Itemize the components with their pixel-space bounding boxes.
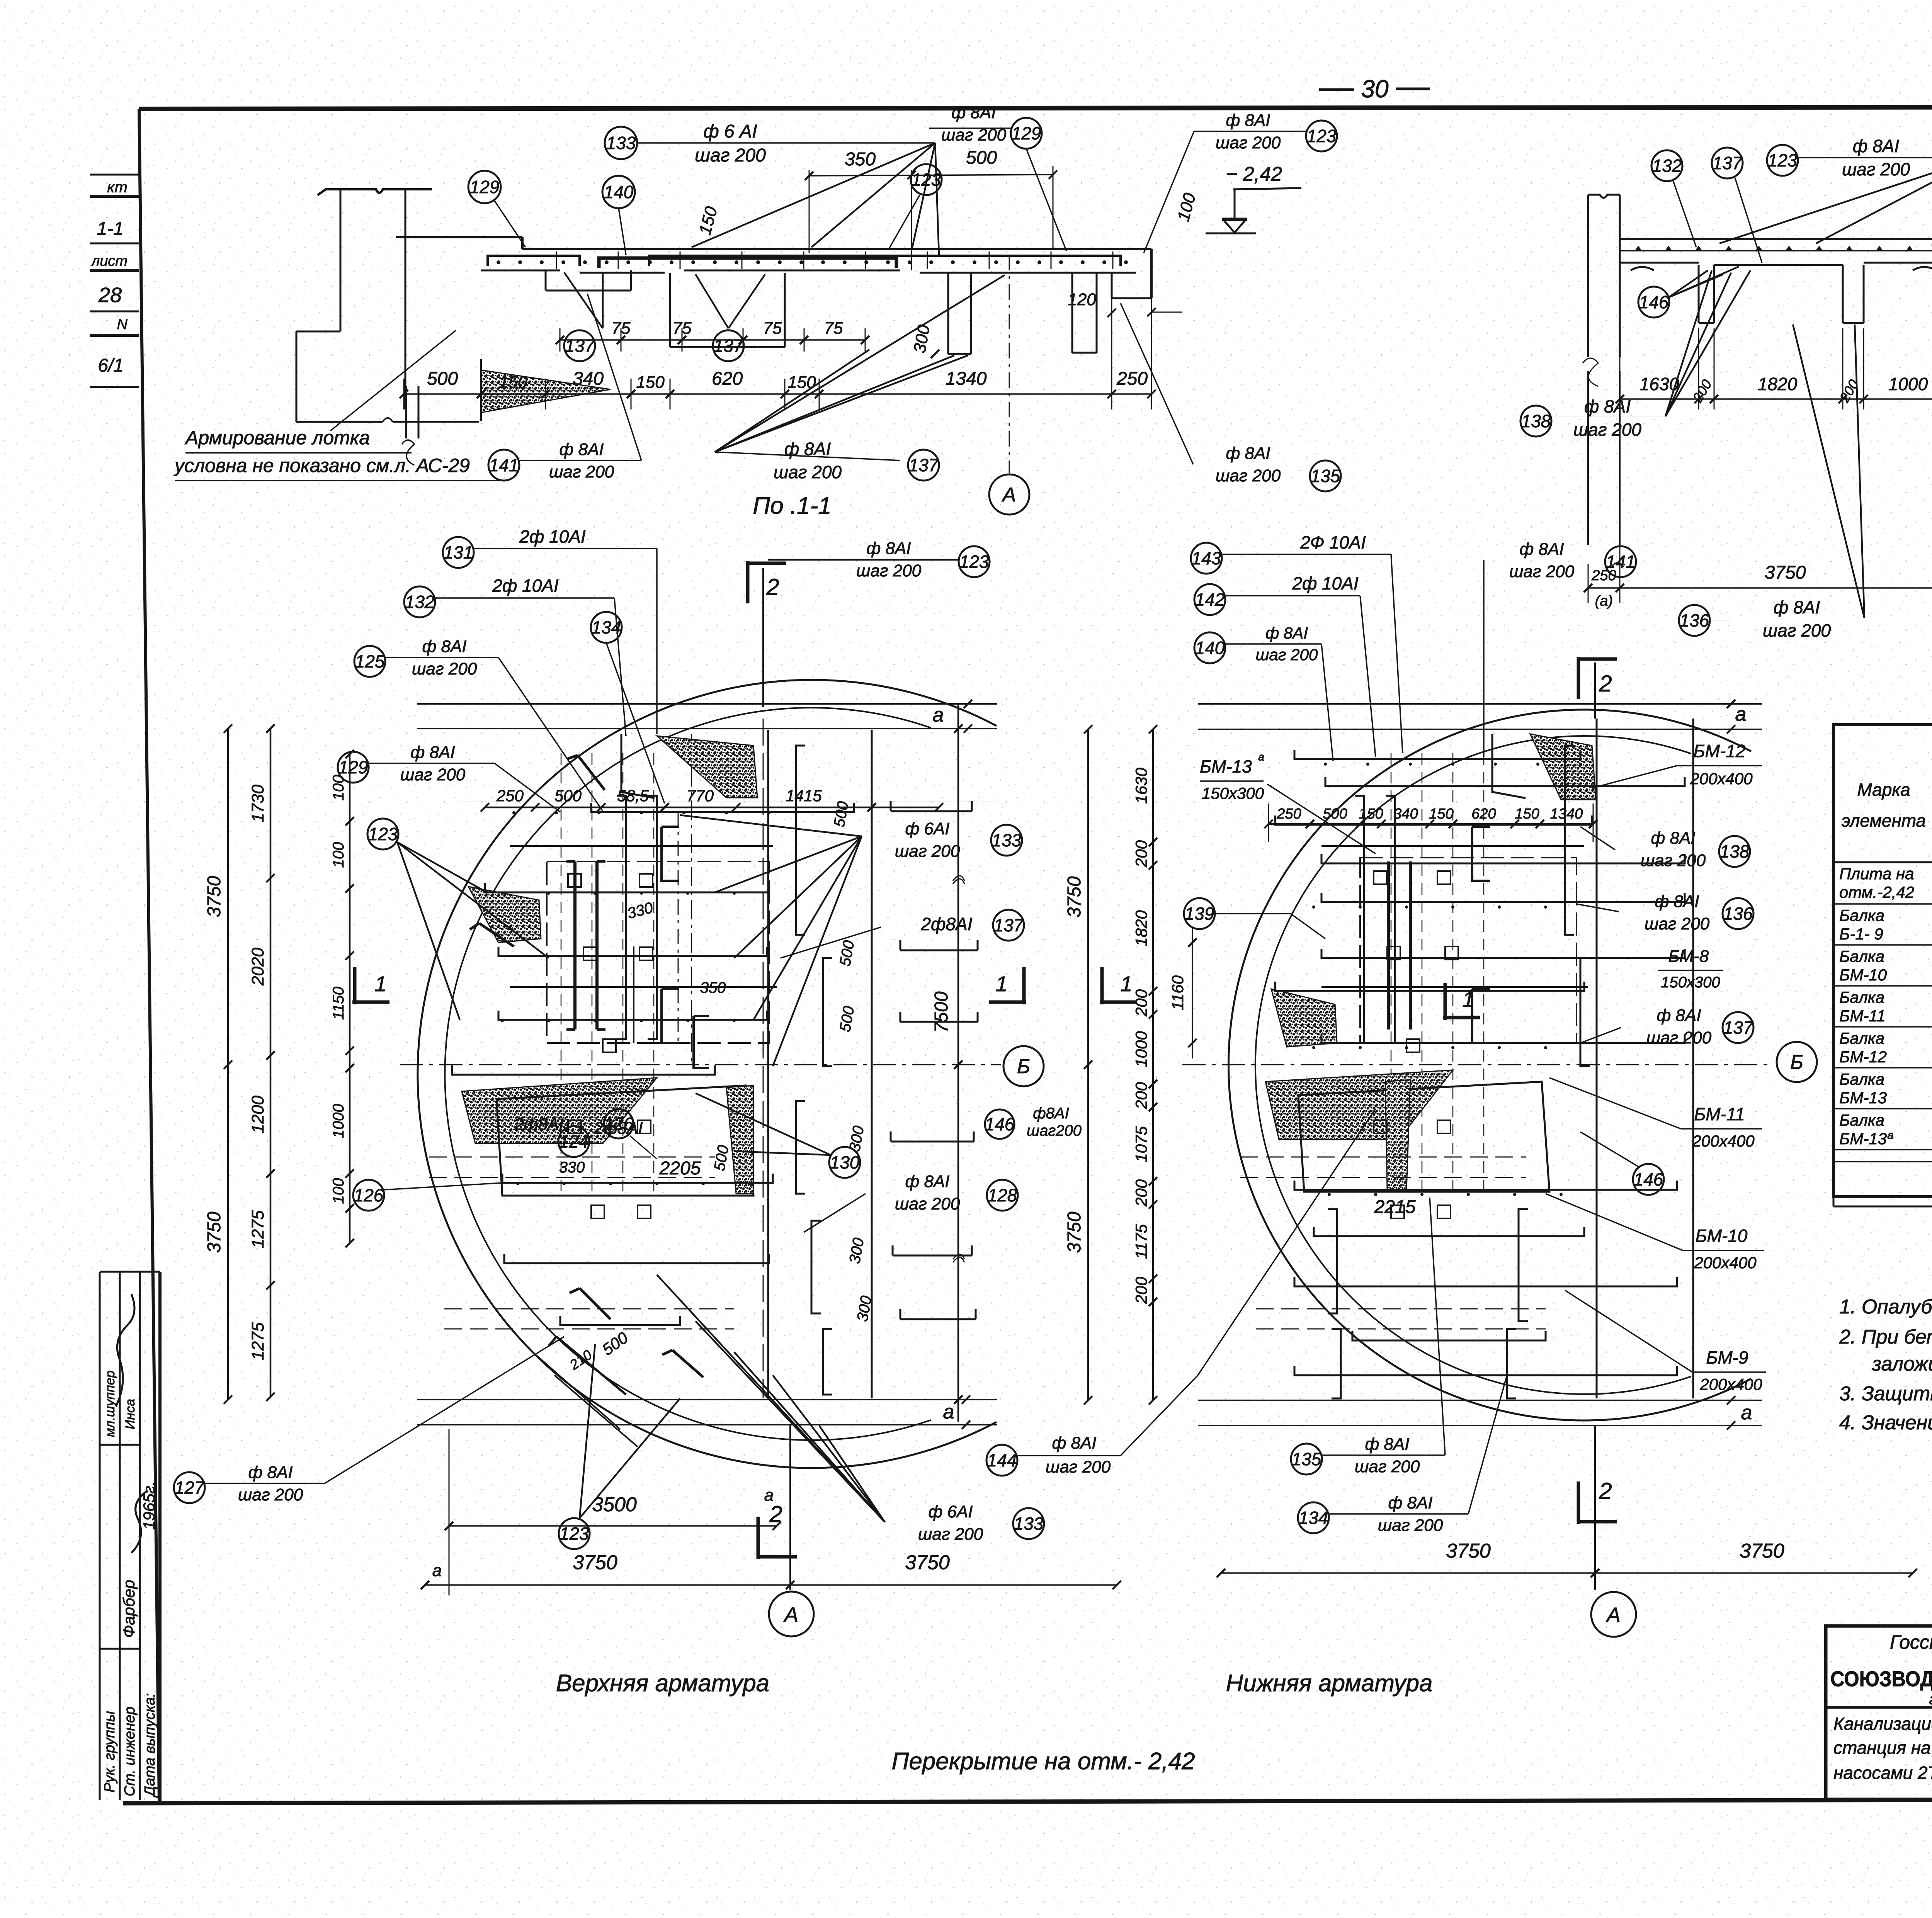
right plan section cut 2 top [1578,657,1617,699]
svg-text:БМ-13: БМ-13 [1200,756,1252,776]
svg-text:200х400: 200х400 [1694,1254,1757,1272]
svg-text:насосами 2Т/2 НФ или 4НФ: насосами 2Т/2 НФ или 4НФ [1833,1763,1932,1783]
svg-text:ф 8АI: ф 8АI [1651,829,1695,848]
callout 134 left plan [591,612,622,643]
right plan lower trapezoid dark edge [1385,1080,1410,1190]
svg-text:200: 200 [1132,1276,1150,1304]
svg-text:ф 8АI: ф 8АI [410,743,455,762]
svg-text:500: 500 [427,369,458,389]
svg-text:А: А [783,1603,798,1626]
svg-text:(а): (а) [1595,593,1613,609]
callout 125 with label [354,646,385,677]
svg-text:123: 123 [368,824,398,844]
svg-text:1415: 1415 [786,787,822,805]
callout 130 with fan [829,1147,860,1178]
section 1-1 left wall faces [340,189,342,331]
svg-text:2ф 10АI: 2ф 10АI [519,527,586,547]
svg-text:620: 620 [712,369,743,389]
svg-text:БМ-12: БМ-12 [1839,1048,1887,1066]
svg-text:условна не показано см.л. АС-2: условна не показано см.л. АС-29 [173,455,470,476]
svg-text:Балка: Балка [1839,906,1884,924]
svg-text:144: 144 [987,1450,1017,1470]
right plan thick vertical bars 2f10AI [1387,861,1390,1030]
left plan upper big rect opening [547,861,769,1043]
left plan chord wall line 1 [767,730,769,1398]
svg-text:шаг 200: шаг 200 [1509,562,1575,581]
callout 126 mid [604,1109,633,1138]
svg-text:132: 132 [1652,156,1682,176]
callout 141 right plan with label [1605,546,1636,577]
callout 134 bottom right plan with label [1298,1502,1329,1533]
svg-text:2: 2 [1599,671,1612,697]
left plan vertical dim chain outer 3750 3750 [227,729,229,1400]
svg-text:БМ-10: БМ-10 [1839,966,1887,984]
svg-text:БМ-9: БМ-9 [1706,1347,1748,1368]
svg-text:2: 2 [766,574,779,600]
right plan lower dashed horizontals [1240,1157,1526,1158]
svg-text:1730: 1730 [248,785,267,822]
svg-text:1160: 1160 [1168,975,1187,1010]
title block outer rect [1826,1626,1932,1799]
svg-text:2ф8АI: 2ф8АI [514,1115,563,1134]
svg-text:133: 133 [1014,1514,1044,1534]
callout 140 right plan with label [1194,632,1225,663]
top-left stamp boxes [90,174,139,176]
svg-text:138: 138 [1521,411,1551,431]
svg-text:мл.шуппер: мл.шуппер [103,1371,117,1437]
svg-text:150: 150 [1515,806,1539,822]
axis B circle right plan [1777,1042,1817,1082]
left plan mid dark band wedge [462,1078,657,1143]
svg-text:2. При бетонировании пере: 2. При бетонировании перекрытия на отм.-… [1839,1326,1932,1348]
svg-text:100: 100 [330,1178,347,1204]
callout 123 far right with label [1306,121,1337,151]
svg-text:1000: 1000 [330,1104,347,1138]
section 1-1 deep beam B [669,273,671,347]
svg-text:ф 8АI: ф 8АI [1656,1006,1701,1025]
left plan L-bracket top rebar marks [567,755,605,790]
sheet border frame bottom [123,1799,1932,1803]
left plan rebar cluster dashed verticals [561,753,562,1194]
svg-text:шаг 200: шаг 200 [1378,1516,1443,1535]
fan from 133 bottom [657,1275,885,1522]
svg-text:1275: 1275 [248,1322,267,1360]
right plan C hook bars column [1472,827,1490,881]
svg-text:ф 8АI: ф 8АI [1052,1434,1096,1453]
svg-text:350: 350 [845,149,876,170]
svg-text:123: 123 [912,170,941,190]
callout 132 with label 2f10AI [404,586,435,617]
left plan section cut 2 bottom [758,1517,797,1559]
callout 143 with label 2f10AI [1191,543,1222,574]
section 1-1 lotok lower walls [405,386,407,438]
svg-text:126: 126 [354,1185,384,1205]
svg-text:шаг 200: шаг 200 [1763,620,1831,640]
svg-text:126: 126 [604,1114,634,1134]
callout 123 bottom [559,1518,590,1549]
svg-text:1340: 1340 [1550,806,1583,822]
section 1-1 slab top chord [522,248,1151,250]
svg-text:станция на 2 агрегата с: станция на 2 агрегата с [1833,1738,1932,1758]
signature squiggle [116,1294,134,1406]
svg-text:3750: 3750 [204,1211,224,1253]
section 1-1 deep beam C [947,273,949,354]
svg-text:2Ф 10АI: 2Ф 10АI [1300,532,1366,552]
svg-text:шаг 200: шаг 200 [1355,1457,1420,1476]
left plan right dim 7500 [957,704,959,1422]
left plan right side angle rebar hooks [891,801,972,811]
callout 123 left pair [367,819,398,849]
callout 139 with leader [1184,898,1215,929]
title block left col divider [1826,1706,1932,1709]
svg-text:ф 8АI: ф 8АI [905,1172,949,1191]
svg-text:Фарбер: Фарбер [120,1580,138,1638]
svg-text:ф 8АI: ф 8АI [951,103,996,122]
callout 146 right with label [985,1109,1014,1139]
svg-text:ф 8АI: ф 8АI [1584,396,1631,416]
svg-text:2020: 2020 [248,948,267,986]
svg-text:28: 28 [98,284,122,307]
svg-text:1000: 1000 [1888,374,1928,394]
svg-text:137: 137 [714,336,744,356]
svg-text:250: 250 [1276,806,1301,822]
svg-text:340: 340 [573,369,604,389]
svg-text:1965г.: 1965г. [140,1481,158,1530]
right plan top cut band [1198,703,1762,705]
left plan section cut 1 marks [352,967,389,1004]
svg-text:− 2,42: − 2,42 [1226,163,1282,185]
svg-text:ф 8АI: ф 8АI [248,1463,293,1482]
svg-text:ф 8АI: ф 8АI [1226,444,1270,463]
svg-text:шаг 200: шаг 200 [1641,851,1706,870]
section 1-1 bottom dim chain 500 150 340 150 620 150 1340 250 [403,379,405,409]
svg-text:ф 8АI: ф 8АI [1388,1493,1432,1512]
svg-text:134: 134 [1299,1508,1328,1528]
svg-text:ф 8АI: ф 8АI [559,440,604,459]
svg-text:6/1: 6/1 [98,355,124,376]
right plan section cut 1 marks [1100,967,1137,1004]
svg-text:150х300: 150х300 [1661,974,1720,991]
svg-text:шаг 200: шаг 200 [918,1525,983,1544]
section 1-1 left wall top [318,189,432,195]
section 1-1 lotok hatched wedge [481,370,611,413]
svg-text:200: 200 [1132,989,1150,1017]
right plan vertical rebar bars [1355,796,1364,1043]
svg-text:шаг 200: шаг 200 [238,1485,303,1504]
svg-text:132: 132 [405,592,435,612]
svg-text:500: 500 [1323,806,1347,822]
svg-text:А: А [1605,1604,1621,1627]
callout 129 with label left plan [338,752,369,783]
svg-text:138: 138 [1720,841,1750,861]
svg-text:200: 200 [1132,840,1150,868]
signature strip bottom-left [99,1272,101,1800]
right plan top corbel outline [1492,734,1526,798]
svg-text:137: 137 [565,336,595,356]
svg-text:340: 340 [1393,806,1418,822]
svg-text:123: 123 [1307,126,1337,146]
section 1-1 dims 75 75 137 [560,328,561,352]
svg-text:Б: Б [1017,1055,1030,1078]
svg-text:шаг 200: шаг 200 [412,659,477,678]
callout 123 on dim [911,164,942,195]
section 1-1 slab stirrup ticks [556,251,557,269]
right plan top dim 250 500 150 340 150 620 150 1340 [1269,823,1593,825]
left plan top corbel outline [621,734,655,798]
svg-text:1: 1 [374,972,386,996]
svg-text:лист: лист [91,253,128,269]
left plan lower dashed horizontals [429,1157,715,1158]
left plan lower trapezoid machine opening [497,1086,753,1196]
svg-text:136: 136 [1723,904,1753,924]
svg-text:ф 8АI: ф 8АI [1655,892,1699,911]
svg-text:1820: 1820 [1132,910,1150,946]
callout 132 section 2-2 [1651,150,1682,181]
svg-text:134: 134 [592,617,621,637]
svg-text:3750: 3750 [905,1551,950,1574]
svg-text:3750: 3750 [1740,1540,1784,1562]
svg-text:заложить закладные по лист: заложить закладные по листу АС-14. [1872,1353,1932,1375]
section 2-2 slab soffit [1620,262,1699,264]
svg-text:кт: кт [107,179,128,196]
svg-text:По .1-1: По .1-1 [753,493,831,519]
leader fan section 2-2 top [1719,158,1932,243]
table extra bottom line [1833,1206,1932,1208]
svg-text:250: 250 [1116,369,1148,389]
section 2-2 dim chain 1630 200 1820 200 1000 200 1075 200 1175 [1619,357,1621,409]
left plan C hook bars column [662,827,679,881]
svg-text:770: 770 [687,787,714,805]
svg-text:133: 133 [606,133,636,153]
svg-text:100: 100 [330,842,347,868]
svg-text:250: 250 [496,787,524,805]
svg-text:г. Москва: г. Москва [1929,1691,1932,1708]
svg-text:140: 140 [604,182,634,202]
left plan horizontal rebar bars [591,803,854,812]
svg-text:Дата выпуска:: Дата выпуска: [142,1693,158,1798]
svg-text:150: 150 [787,373,816,392]
axis B circle left plan [1003,1046,1044,1086]
svg-text:140: 140 [1195,638,1225,658]
svg-text:142: 142 [1195,590,1225,610]
svg-text:136: 136 [1680,610,1709,630]
svg-text:Госстрой СССР: Госстрой СССР [1890,1631,1932,1653]
left plan vertical dim chain inner 100s [349,754,351,1243]
svg-text:ф 8АI: ф 8АI [1265,624,1308,642]
leader from lotok note [330,330,456,431]
svg-text:3500: 3500 [592,1493,637,1516]
svg-text:2ф 10АI: 2ф 10АI [492,576,559,596]
page number 30 at top [1319,88,1354,91]
section 2-2 bottom rebar hooks [1631,267,1654,270]
svg-text:2ф 10АI: 2ф 10АI [1292,573,1359,593]
svg-text:а: а [933,704,944,726]
callout 140 [602,176,635,208]
section 2-2 slab rebar triangles [1634,246,1642,251]
svg-text:143: 143 [1192,548,1221,568]
left plan bottom cut band [417,1399,997,1400]
svg-text:Инса: Инса [123,1399,138,1429]
svg-text:137: 137 [909,455,939,475]
svg-text:75: 75 [763,319,782,338]
svg-text:шаг 200: шаг 200 [1046,1458,1111,1476]
svg-text:Балка: Балка [1839,1111,1884,1129]
section 2-2 left wall [1587,195,1589,357]
svg-text:3750: 3750 [1064,1211,1085,1253]
svg-text:150: 150 [636,373,665,392]
svg-text:ф 8АI: ф 8АI [1226,111,1270,130]
right plan outer wall arc [1229,710,1752,1420]
svg-text:Балка: Балка [1839,947,1884,965]
section 1-1 slab right end [1150,249,1153,298]
svg-text:131: 131 [444,542,473,562]
svg-text:1: 1 [1120,972,1132,996]
right plan chord wall line 1 [1596,719,1598,1398]
callout 142 with label 2f10AI [1194,584,1225,615]
svg-text:Нижняя арматура: Нижняя арматура [1226,1670,1433,1697]
left plan bottom dim 3500 [449,1525,777,1527]
svg-text:75: 75 [824,319,843,338]
left plan vertical rebar bars [617,796,626,1039]
svg-text:123: 123 [959,552,989,572]
svg-text:Б-1- 9: Б-1- 9 [1839,925,1883,943]
svg-text:1. Опалубочные чертежи см: 1. Опалубочные чертежи см. листы АС-10, … [1839,1296,1932,1318]
right plan mid dark band wedge [1265,1070,1453,1140]
svg-text:124: 124 [559,1131,589,1152]
table header bottom line [1833,861,1932,863]
svg-text:шаг 200: шаг 200 [1216,466,1281,485]
left plan chord wall line 2 [871,730,873,1398]
svg-text:200: 200 [1132,1179,1150,1207]
svg-text:130: 130 [830,1152,860,1172]
left plan top small dim 250 500 585 770 1415 [460,801,997,802]
svg-text:137: 137 [994,915,1024,935]
svg-text:ф 8АI: ф 8АI [866,539,911,558]
svg-text:200х400: 200х400 [1699,1375,1762,1393]
right plan extra horizontal bars [1321,845,1584,847]
svg-text:а: а [1741,1402,1752,1424]
svg-text:127: 127 [175,1478,205,1498]
svg-text:75: 75 [612,319,631,338]
svg-text:1000: 1000 [1132,1031,1150,1067]
callout 133 with label ф6АI шаг200 [605,127,637,159]
callout 129 left [468,171,501,203]
svg-text:1075: 1075 [1132,1126,1150,1162]
svg-text:129: 129 [470,177,500,197]
svg-text:2215: 2215 [1374,1197,1416,1217]
right plan rebar cluster dashed verticals [1391,753,1392,1190]
svg-text:3750: 3750 [204,876,224,917]
left plan top cut band [417,703,997,705]
svg-text:Балка: Балка [1839,1029,1884,1047]
svg-text:500: 500 [966,148,997,168]
svg-text:Плита на: Плита на [1839,865,1914,883]
svg-text:БМ-11: БМ-11 [1694,1104,1745,1124]
svg-text:128: 128 [988,1185,1017,1205]
left plan bar dots [512,811,515,814]
callout 135 bottom right plan with label [1291,1444,1322,1475]
svg-text:шаг200: шаг200 [1027,1122,1082,1139]
svg-text:150х300: 150х300 [1202,784,1264,802]
svg-text:75: 75 [673,319,692,338]
svg-text:ф8АI: ф8АI [1033,1105,1069,1122]
svg-text:137: 137 [1713,153,1743,173]
right plan top corbel dark wedge [1530,734,1596,800]
svg-text:БМ-8: БМ-8 [1668,947,1709,966]
left plan section cut line 2 vertical [763,719,764,1398]
svg-text:200х400: 200х400 [1690,770,1753,788]
svg-text:3750: 3750 [573,1551,617,1574]
right plan section cut 2 bottom [1578,1481,1617,1524]
sheet border frame left [139,109,159,1801]
svg-text:1630: 1630 [1132,768,1150,804]
section 1-1 slab rebar dots [497,260,500,264]
svg-text:2ф8АI: 2ф8АI [920,914,972,934]
svg-text:ф 8АI: ф 8АI [1853,136,1899,156]
left plan bottom angled rebar [549,1337,626,1395]
svg-text:123: 123 [560,1524,589,1544]
svg-text:129: 129 [338,757,368,777]
callout 144 bottom with label [986,1445,1017,1476]
svg-text:N: N [117,316,128,333]
section 1-1 beam D [1071,273,1073,353]
svg-text:элемента: элемента [1842,810,1926,831]
callout 141 with label [488,450,519,481]
callout 136 with label section 2-2 [1679,605,1710,636]
svg-text:2205: 2205 [659,1158,701,1179]
callout 126 left [353,1180,384,1211]
section 1-1 rib beam A [545,270,547,291]
svg-text:30: 30 [1361,75,1389,103]
right plan left dim chain 1630 1820 1000 1075 1175 [1152,729,1154,1400]
left plan small squares column stubs [568,874,581,887]
right plan bar dots [1324,763,1327,766]
left plan small inner verticals [633,946,634,1043]
section 1-1 wall ledge [396,236,522,238]
svg-text:Марка: Марка [1857,780,1910,800]
svg-text:Ст. инженер: Ст. инженер [122,1707,138,1796]
svg-text:146: 146 [1634,1169,1663,1189]
svg-text:100: 100 [330,775,347,801]
svg-text:200х400: 200х400 [1692,1132,1755,1150]
left plan lower trapezoid dark edge [726,1086,753,1194]
svg-text:330: 330 [559,1159,585,1176]
svg-text:3750: 3750 [1765,562,1806,583]
svg-text:шаг 200: шаг 200 [1645,914,1710,933]
leaders from 137 dims to beams [564,272,603,328]
svg-text:отм.-2,42: отм.-2,42 [1839,883,1914,901]
svg-text:150: 150 [499,373,527,392]
svg-text:123: 123 [1768,150,1798,170]
callout 138 with label section 2-2 [1520,406,1551,437]
left plan extra horizontal bars with dots [510,845,773,847]
svg-text:139: 139 [1185,904,1214,924]
left plan thick vertical bars 2f10AI [573,861,577,1030]
section 2-2 slab top [1620,238,1932,240]
section 2-2 slab rebar line [1620,250,1932,251]
left plan left corbel wedge [468,887,541,943]
svg-text:Балка: Балка [1839,1070,1884,1088]
svg-text:БМ-13ª: БМ-13ª [1839,1130,1893,1148]
svg-text:135: 135 [1311,466,1340,486]
svg-text:а: а [432,1561,442,1580]
left plan inner wall arc [445,708,931,1440]
svg-text:3. Защитный слой бетона: 3. Защитный слой бетона принят 20 мм [1839,1383,1932,1405]
svg-text:Перекрытие на отм.- 2,42: Перекрытие на отм.- 2,42 [891,1748,1195,1775]
svg-text:200: 200 [1132,1082,1150,1109]
svg-text:4. Значение „а“ см. таблицу: 4. Значение „а“ см. таблицу на листе АС-… [1839,1412,1932,1434]
leader from 144 into right plan [1198,1109,1376,1375]
